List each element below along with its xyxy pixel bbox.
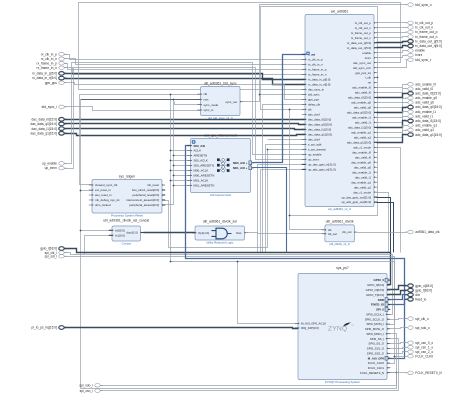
svg-text:FCLK_CLK1: FCLK_CLK1 — [368, 366, 385, 370]
svg-text:spi_sdo_o: spi_sdo_o — [415, 326, 430, 330]
wire fclk_clk0 trunk — [171, 262, 395, 364]
svg-text:rx_frame_in_n: rx_frame_in_n — [37, 66, 58, 70]
svg-text:tx_clk_out_n: tx_clk_out_n — [415, 26, 433, 30]
wire aresetn branch 2 — [174, 155, 191, 157]
svg-text:Concat: Concat — [122, 241, 131, 245]
port rx_data_in_p[5:0] — [32, 72, 66, 76]
port spi_csn_2_o — [405, 350, 433, 354]
wire fclk_reset0_n net — [387, 372, 407, 374]
svg-text:rx_clk_in_n: rx_clk_in_n — [308, 63, 323, 67]
wire adc_valid_q0 net — [377, 103, 407, 108]
svg-text:dac_data_i0[15:0]: dac_data_i0[15:0] — [32, 118, 57, 122]
svg-text:dac_valid_q1: dac_valid_q1 — [354, 185, 371, 189]
svg-text:M01_ARESETN: M01_ARESETN — [194, 184, 215, 188]
wire dac_data_q1 net (bus) — [65, 134, 305, 136]
junction gp0 aclk — [237, 261, 239, 263]
wire adc_enable_i1 net — [377, 112, 407, 118]
svg-text:S00_ACLK: S00_ACLK — [194, 159, 208, 163]
svg-text:ddr: ddr — [415, 293, 421, 297]
svg-text:spi_csn_2_o: spi_csn_2_o — [415, 350, 433, 354]
wire up_dac_gpio_out net (bus) — [377, 198, 391, 253]
svg-text:sys_rstgen: sys_rstgen — [119, 174, 136, 178]
svg-text:sync_out: sync_out — [225, 100, 237, 104]
svg-text:FCLK_CLK0: FCLK_CLK0 — [415, 354, 433, 358]
svg-text:adc_enable_i0: adc_enable_i0 — [415, 82, 436, 86]
svg-text:tx_data_out_n[5:0]: tx_data_out_n[5:0] — [347, 46, 371, 50]
svg-text:dac_data_q0[15:0]: dac_data_q0[15:0] — [308, 123, 332, 127]
junction ext_reset_in — [80, 190, 82, 192]
wire dac_data_i0 net (bus) — [65, 119, 305, 121]
svg-text:ZYNQ7 Processing System: ZYNQ7 Processing System — [325, 380, 361, 384]
svg-text:bus_struct_reset[0:0]: bus_struct_reset[0:0] — [132, 188, 159, 192]
svg-text:adc_data_q1[15:0]: adc_data_q1[15:0] — [347, 141, 371, 145]
wire tx_clk_out_n net — [377, 27, 407, 29]
wire peripheral_aresetn net — [165, 100, 174, 205]
port tx_clk_out_n — [405, 26, 433, 30]
port rx_frame_in_p — [37, 61, 67, 65]
svg-text:M00_ARESETN: M00_ARESETN — [194, 174, 215, 178]
svg-text:FCLK_RESET0_N: FCLK_RESET0_N — [415, 371, 442, 375]
wire dac_dunf net — [268, 139, 305, 141]
svg-text:adc_enable_i1: adc_enable_i1 — [352, 116, 371, 120]
svg-text:S00_ARESETN: S00_ARESETN — [194, 164, 214, 168]
svg-text:gpio_t[63:0]: gpio_t[63:0] — [415, 288, 432, 292]
svg-text:tdd_sync_o: tdd_sync_o — [415, 3, 432, 7]
wire spi_sdo_i net — [101, 334, 397, 386]
block axi_ad9361 — [302, 9, 377, 211]
junction l_clk divclk — [289, 215, 291, 217]
wire tdd_sync_cntr net — [377, 60, 407, 68]
svg-text:DDR: DDR — [378, 298, 385, 302]
port gps_pps — [45, 81, 67, 85]
wire spi_clk_o net — [387, 319, 407, 320]
wire divclk_sel res net — [248, 233, 325, 234]
port spi_clk_i — [45, 251, 67, 255]
svg-text:adc_enable_i0: adc_enable_i0 — [352, 86, 371, 90]
port adc_enable_i0 — [405, 82, 436, 86]
svg-text:adc_valid_q1: adc_valid_q1 — [415, 128, 434, 132]
port gpio_i[63:0] — [40, 247, 66, 251]
svg-text:rx_clk_in_p: rx_clk_in_p — [308, 58, 323, 62]
port rx_frame_in_n — [37, 66, 67, 70]
port up_enable — [42, 162, 67, 166]
svg-text:txnrx: txnrx — [415, 53, 422, 57]
junction l_clk pin — [377, 77, 379, 79]
svg-text:SPI0_SCLK_O: SPI0_SCLK_O — [365, 317, 385, 321]
svg-text:fixed_io: fixed_io — [415, 297, 426, 301]
svg-text:tx_frame_out_p: tx_frame_out_p — [351, 31, 371, 35]
port adc_enable_q0 — [405, 96, 437, 100]
wire gps_pps net — [65, 83, 305, 100]
wire aclk branch 5 — [171, 170, 191, 172]
svg-text:Op1[1:0]: Op1[1:0] — [198, 231, 209, 235]
svg-text:up_enable: up_enable — [42, 162, 57, 166]
wire adc_data_i0[15:0] net — [377, 94, 407, 98]
svg-text:tx_data_out_n[5:0]: tx_data_out_n[5:0] — [415, 44, 442, 48]
svg-text:axi_cpu_interconnect: axi_cpu_interconnect — [204, 133, 236, 137]
svg-text:util_ad9361_tdd_sync: util_ad9361_tdd_sync — [204, 81, 237, 85]
wire spi_csn_0_o net — [387, 343, 407, 344]
port pl_to_ps_irq[15:0] — [32, 326, 67, 330]
port tx_frame_out_n — [405, 35, 437, 39]
wire enable net — [377, 51, 407, 53]
wire fclk_reset0_n left vertical — [80, 100, 82, 389]
svg-text:ARESETN: ARESETN — [194, 154, 208, 158]
svg-text:M_AXI_GP0: M_AXI_GP0 — [368, 356, 385, 360]
svg-text:dac_enable_i1: dac_enable_i1 — [352, 170, 371, 174]
svg-text:util_ad9361_divclk_sel_concat: util_ad9361_divclk_sel_concat — [103, 219, 149, 223]
svg-text:dac_sync_out: dac_sync_out — [353, 61, 371, 65]
junction rstn tdd — [173, 99, 175, 101]
wire clk branch to rstgen — [80, 95, 171, 185]
svg-text:adc_data_q0[15:0]: adc_data_q0[15:0] — [347, 111, 371, 115]
wire fclk_clk1 stub — [387, 367, 391, 369]
port tx_clk_out_p — [405, 21, 433, 25]
svg-text:IRQ_F2P[0:0]: IRQ_F2P[0:0] — [301, 326, 319, 330]
port up_txnrx — [45, 166, 67, 170]
wire tx_clk_out_p net — [377, 22, 407, 24]
svg-text:M00_AXI +: M00_AXI + — [233, 161, 248, 165]
svg-text:dac_valid_i0: dac_valid_i0 — [355, 155, 371, 159]
svg-text:dac_data_q0[15:0]: dac_data_q0[15:0] — [30, 122, 57, 126]
svg-text:ext_reset_in: ext_reset_in — [95, 188, 111, 192]
wire spi_sdi_i trunk — [65, 257, 395, 325]
svg-text:rx_clk_in_p: rx_clk_in_p — [41, 52, 57, 56]
svg-text:Res: Res — [236, 231, 242, 235]
port rx_data_in_n[5:0] — [32, 76, 66, 80]
svg-text:clk_out: clk_out — [342, 230, 351, 234]
svg-text:tx_frame_out_n: tx_frame_out_n — [415, 35, 437, 39]
svg-text:SPI0_SS1_O: SPI0_SS1_O — [367, 347, 385, 351]
port rx_clk_in_p — [41, 52, 67, 56]
svg-text:mb_debug_sys_rst: mb_debug_sys_rst — [95, 198, 120, 202]
svg-text:In0[0:0]: In0[0:0] — [115, 229, 125, 233]
port spi_csn_1_o — [405, 345, 433, 349]
wire dac_data_q0 net (bus) — [65, 124, 305, 125]
port spi_csn_i — [80, 389, 103, 393]
svg-text:spi_csn_i: spi_csn_i — [80, 389, 94, 393]
svg-text:dcm_locked: dcm_locked — [95, 203, 111, 207]
svg-text:adc_valid_i1: adc_valid_i1 — [415, 115, 433, 119]
svg-text:TM: TM — [351, 325, 354, 327]
port adc_data_q0[15:0] — [405, 105, 442, 109]
svg-text:up_enable: up_enable — [308, 153, 322, 157]
wire adc_valid_q1 net — [377, 131, 407, 138]
junction aclk 3 — [170, 160, 172, 162]
svg-text:SPI0_MOSI_I: SPI0_MOSI_I — [366, 322, 384, 326]
wire concat In1 net — [85, 236, 113, 255]
svg-text:rx_data_in_n[5:0]: rx_data_in_n[5:0] — [308, 83, 331, 87]
port dac_data_i0[15:0] — [32, 118, 67, 122]
svg-text:SPI0_SS2_O: SPI0_SS2_O — [367, 351, 385, 355]
svg-text:pl_to_ps_irq[15:0]: pl_to_ps_irq[15:0] — [32, 326, 57, 330]
svg-text:up_txnrx: up_txnrx — [308, 158, 320, 162]
junction fclk_clk0 port — [394, 356, 396, 358]
wire m00_axi net (interface) — [254, 55, 305, 163]
junction aclk 7 — [170, 180, 172, 182]
svg-text:tdd_sync_cntr: tdd_sync_cntr — [353, 66, 371, 70]
svg-text:aux_reset_in: aux_reset_in — [95, 193, 112, 197]
wire divclk_sel dout net — [144, 232, 195, 234]
svg-text:up_txnrx: up_txnrx — [45, 166, 58, 170]
wire up_dac_gpio_in net — [258, 165, 305, 253]
port tdd_sync_o — [405, 3, 432, 7]
svg-text:mb_reset: mb_reset — [147, 183, 159, 187]
svg-text:adc_r1_mode: adc_r1_mode — [353, 146, 371, 150]
svg-text:SPI0_SCLK_I: SPI0_SCLK_I — [366, 312, 384, 316]
wire gpio_t net (bus) — [387, 291, 407, 295]
svg-text:dac_data_q1[15:0]: dac_data_q1[15:0] — [30, 132, 57, 136]
svg-text:M00_ACLK: M00_ACLK — [194, 169, 209, 173]
port gpio_o[63:0] — [405, 284, 433, 288]
wire sync_mode net — [175, 102, 201, 105]
svg-text:FCLK_RESET0_N: FCLK_RESET0_N — [360, 371, 384, 375]
svg-text:rx_data_in_p[5:0]: rx_data_in_p[5:0] — [32, 72, 57, 76]
wire gpio_i trunk (bus) — [65, 249, 391, 285]
svg-text:axi_ad9361: axi_ad9361 — [331, 9, 349, 13]
wire adc_data_i1[15:0] net — [377, 121, 407, 128]
port dac_data_q1[15:0] — [30, 132, 66, 136]
wire aresetn branch 8 — [174, 185, 191, 187]
svg-text:tx_clk_out_n: tx_clk_out_n — [355, 26, 372, 30]
port tx_data_out_n[5:0] — [405, 44, 442, 48]
junction concat In0 — [80, 230, 82, 232]
svg-text:adc_data_i1[15:0]: adc_data_i1[15:0] — [348, 126, 371, 130]
svg-text:gps_pps: gps_pps — [308, 98, 319, 102]
svg-text:up_dac_gpio_out[31:0]: up_dac_gpio_out[31:0] — [342, 195, 372, 199]
svg-text:SPI_0: SPI_0 — [376, 308, 384, 312]
svg-text:peripheral_aresetn[0:0]: peripheral_aresetn[0:0] — [129, 203, 159, 207]
svg-text:rstn: rstn — [204, 98, 209, 102]
wire up_adc_gpio_in net — [261, 170, 305, 253]
wire adc_enable_q1 net — [377, 126, 407, 133]
svg-text:GPIO_0: GPIO_0 — [374, 278, 385, 282]
svg-text:axi_ad9361_v1_0: axi_ad9361_v1_0 — [328, 207, 351, 211]
svg-text:tx_data_out_p[5:0]: tx_data_out_p[5:0] — [347, 41, 371, 45]
svg-text:tx_data_out_p[5:0]: tx_data_out_p[5:0] — [415, 39, 442, 43]
wire tx_data_out_p[5:0] net — [377, 42, 407, 43]
wire aclk branch 7 — [171, 180, 191, 182]
wire rx_clk_in_n net — [65, 59, 305, 65]
svg-text:SPI0_MOSI_O: SPI0_MOSI_O — [365, 327, 385, 331]
svg-text:spi_csn_1_o: spi_csn_1_o — [415, 345, 433, 349]
svg-text:adc_enable_q0: adc_enable_q0 — [415, 96, 437, 100]
port dac_data_i1[15:0] — [32, 127, 67, 131]
svg-text:txnrx: txnrx — [365, 56, 372, 60]
svg-text:tdd_sync: tdd_sync — [308, 93, 320, 97]
block axi_cpu_interconnect — [187, 133, 253, 197]
svg-text:tdd_sync_i: tdd_sync_i — [42, 105, 58, 109]
port tx_data_out_p[5:0] — [405, 39, 442, 43]
port adc_valid_i0 — [405, 87, 433, 91]
svg-text:dac_valid_q0: dac_valid_q0 — [354, 165, 371, 169]
svg-text:rx_data_in_n[5:0]: rx_data_in_n[5:0] — [32, 76, 57, 80]
port FCLK_RESET0_N — [405, 371, 442, 375]
svg-text:sync_mode: sync_mode — [204, 103, 219, 107]
wire rx_frame_in_n net — [65, 68, 305, 75]
port FCLK_CLK0 — [405, 354, 433, 358]
wire sys clock vertical — [170, 95, 172, 262]
svg-text:up_dac_gpio_in[31:0]: up_dac_gpio_in[31:0] — [308, 163, 336, 167]
svg-text:tx_frame_out_p: tx_frame_out_p — [415, 30, 437, 34]
port ad9361_data_clk — [405, 230, 440, 234]
port rx_clk_in_n — [41, 57, 67, 61]
wire tdd_sync_i net — [65, 107, 201, 111]
svg-text:adc_data_q1[15:0]: adc_data_q1[15:0] — [415, 133, 442, 137]
block util_ad9361_tdd_sync — [197, 81, 243, 120]
wire aclk branch 3 — [171, 160, 191, 162]
wire gpio_o net (bus) — [387, 286, 407, 290]
svg-text:Processor System Reset: Processor System Reset — [111, 213, 143, 217]
port adc_data_i1[15:0] — [405, 119, 440, 123]
port tx_frame_out_p — [405, 30, 437, 34]
svg-text:sync_in: sync_in — [204, 108, 214, 112]
svg-text:adc_data_q0[15:0]: adc_data_q0[15:0] — [415, 105, 442, 109]
svg-text:dac_dunf: dac_dunf — [308, 138, 320, 142]
svg-text:adc_valid_i1: adc_valid_i1 — [355, 121, 371, 125]
port spi_clk_o — [405, 317, 429, 321]
svg-text:In1[0:0]: In1[0:0] — [115, 234, 125, 238]
svg-text:adc_data_i1[15:0]: adc_data_i1[15:0] — [415, 119, 440, 123]
svg-text:gpio_o[63:0]: gpio_o[63:0] — [415, 284, 433, 288]
block util_ad9361_divclk_sel — [192, 220, 248, 245]
wire ext_reset_in branch — [81, 190, 93, 192]
svg-text:util_ad9361_divclk_sel: util_ad9361_divclk_sel — [203, 220, 237, 224]
svg-text:dac_r1_mode: dac_r1_mode — [353, 190, 371, 194]
svg-text:adc_enable_q1: adc_enable_q1 — [351, 131, 371, 135]
wire pl_to_ps_irq net (bus) — [65, 328, 299, 329]
svg-text:up_adc_gpio_out[31:0]: up_adc_gpio_out[31:0] — [342, 200, 372, 204]
wire spi_clk_i trunk — [65, 253, 393, 315]
port spi_csn_0_o — [405, 341, 433, 345]
svg-text:M_AXI_GP0_ACLK: M_AXI_GP0_ACLK — [301, 322, 326, 326]
svg-text:tx_frame_out_n: tx_frame_out_n — [351, 36, 371, 40]
junction l_clk clkrow — [289, 109, 291, 111]
wire s_axi_aclk net — [266, 145, 305, 253]
svg-text:S00_AXI: S00_AXI — [194, 144, 206, 148]
wire m01_axi net (interface) — [254, 168, 287, 253]
wire m_axi_gp0_aclk net — [238, 262, 299, 324]
port spi_sdo_i — [79, 383, 102, 387]
svg-text:ZYNQ: ZYNQ — [328, 326, 347, 333]
wire adc_data_q1[15:0] net — [377, 135, 407, 143]
svg-text:slowest_sync_clk: slowest_sync_clk — [95, 183, 118, 187]
svg-text:ACLK: ACLK — [194, 149, 202, 153]
svg-text:spi_sdo_i: spi_sdo_i — [79, 383, 93, 387]
svg-text:dac_data_i1[15:0]: dac_data_i1[15:0] — [32, 127, 57, 131]
wire adc_valid_i0 net — [377, 89, 407, 93]
svg-text:clk: clk — [308, 108, 312, 112]
wire l_clk net (loop) — [261, 7, 378, 110]
wire spi_csn_i net — [101, 339, 399, 391]
svg-text:util_tdd_sync_v1_0: util_tdd_sync_v1_0 — [208, 116, 233, 120]
svg-text:gps_pps_irq: gps_pps_irq — [355, 71, 371, 75]
svg-text:adc_data_i0[15:0]: adc_data_i0[15:0] — [415, 92, 440, 96]
wire tx_data_out_n[5:0] net — [377, 46, 407, 48]
junction aresetn 8 — [173, 185, 175, 187]
svg-text:up_adc_gpio_in[31:0]: up_adc_gpio_in[31:0] — [308, 168, 336, 172]
svg-text:tx_clk_out_p: tx_clk_out_p — [355, 21, 372, 25]
wire up_adc_gpio_out net (bus) — [377, 203, 394, 253]
port txnrx — [405, 53, 422, 57]
port adc_valid_q0 — [405, 101, 434, 105]
wire s_axi_aresetn net — [165, 150, 305, 248]
wire adc_data_q0[15:0] net — [377, 108, 407, 113]
wire tx_frame_out_p net — [377, 32, 407, 34]
svg-text:delay_clk: delay_clk — [308, 103, 321, 107]
svg-text:dac_enable_q0: dac_enable_q0 — [351, 160, 371, 164]
wire aresetn branch 4 — [174, 165, 191, 167]
junction s_axi_aresetn — [267, 149, 269, 151]
junction clk trunk — [170, 261, 172, 263]
wire sync_out branch to tdd_sync pin — [260, 94, 305, 96]
wire adc_r1_mode net — [377, 148, 401, 253]
svg-text:rx_clk_in_n: rx_clk_in_n — [41, 57, 57, 61]
wire adc_enable_i0 net — [377, 85, 407, 88]
wire l_clk to divclk clk — [290, 110, 325, 230]
block sys_ps7 (ZYNQ7 Processing System) — [295, 266, 390, 384]
wire dac_r1_mode net — [377, 193, 389, 253]
svg-text:gps_pps: gps_pps — [45, 81, 57, 85]
svg-text:FIXED_IO: FIXED_IO — [371, 303, 385, 307]
wire adc_valid_i1 net — [377, 117, 407, 123]
wire tdd clk branch — [171, 94, 201, 96]
svg-text:dac_enable_i0: dac_enable_i0 — [352, 150, 371, 154]
svg-text:dac_sync_in: dac_sync_in — [308, 88, 324, 92]
svg-text:spi_csn_0_o: spi_csn_0_o — [415, 341, 433, 345]
svg-text:adc_valid_i0: adc_valid_i0 — [415, 87, 433, 91]
wire axi gp0 trunk (interface) — [186, 146, 405, 359]
svg-text:GPIO_I[63:0]: GPIO_I[63:0] — [367, 283, 384, 287]
svg-text:Utility Reduced Logic: Utility Reduced Logic — [206, 240, 234, 244]
wire ddr net (interface) — [387, 295, 407, 300]
port ddr — [405, 293, 421, 297]
svg-text:ad9361_data_clk: ad9361_data_clk — [415, 230, 440, 234]
wire rx_data_in_p net (bus) — [65, 74, 305, 80]
svg-text:adc_enable_q0: adc_enable_q0 — [351, 101, 371, 105]
wire l_clk down branch — [290, 78, 378, 216]
svg-text:adc_valid_i0: adc_valid_i0 — [355, 91, 371, 95]
port gpio_t[63:0] — [405, 288, 432, 292]
svg-text:adc_dovf: adc_dovf — [308, 113, 320, 117]
wire delay_clk net — [263, 105, 305, 253]
svg-text:peripheral_reset[0:0]: peripheral_reset[0:0] — [132, 193, 159, 197]
svg-text:rx_frame_in_p: rx_frame_in_p — [308, 68, 327, 72]
port adc_enable_q1 — [405, 124, 437, 128]
svg-text:clk_sel: clk_sel — [328, 232, 337, 236]
junction aclk 1 — [170, 150, 172, 152]
wire spi_csn_1_o net — [387, 348, 407, 349]
wire rx_frame_in_p net — [65, 64, 305, 70]
block util_ad9361_divclk — [322, 219, 358, 246]
svg-text:adc_valid_q0: adc_valid_q0 — [354, 106, 371, 110]
port fixed_io — [405, 297, 426, 301]
junction aresetn 4 — [173, 165, 175, 167]
wire fclk_clk0 port branch — [395, 356, 407, 358]
svg-text:adc_enable_q1: adc_enable_q1 — [415, 124, 437, 128]
wire txnrx net — [377, 56, 407, 58]
svg-text:rst: rst — [368, 81, 371, 85]
svg-text:SPI0_SS_I: SPI0_SS_I — [370, 337, 384, 341]
svg-text:M01_AXI +: M01_AXI + — [233, 166, 248, 170]
svg-text:sys_ps7: sys_ps7 — [336, 266, 349, 270]
wire fclk_reset0_n horizontal to tdd rstn — [81, 99, 201, 101]
svg-text:dout[1:0]: dout[1:0] — [126, 231, 137, 235]
wire dac_data_i1 net (bus) — [65, 129, 305, 130]
port adc_valid_q1 — [405, 128, 434, 132]
wire rx_clk_in_p net — [65, 55, 305, 60]
svg-text:M01_ACLK: M01_ACLK — [194, 179, 209, 183]
